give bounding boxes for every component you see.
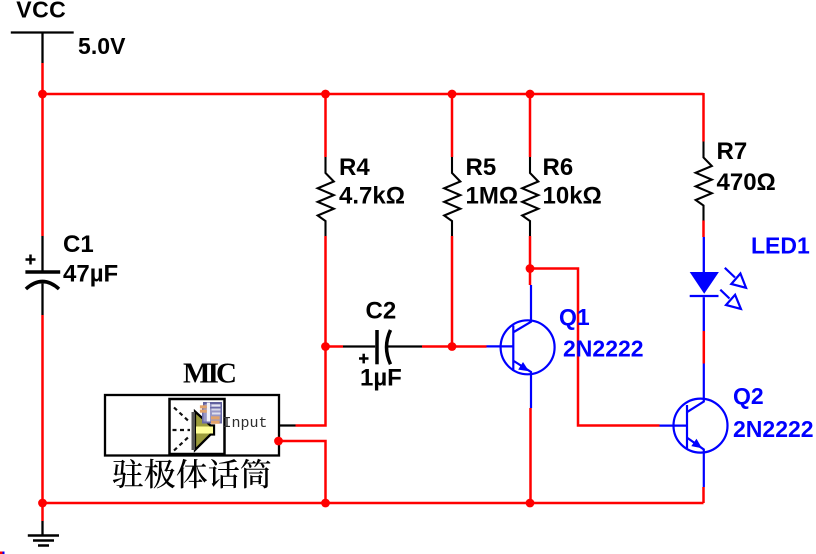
microphone MIC box xyxy=(105,358,279,456)
wire R6 bottom xyxy=(529,236,532,285)
svg-text:Input: Input xyxy=(223,415,268,432)
svg-text:2N2222: 2N2222 xyxy=(733,416,814,442)
resistor R4 xyxy=(318,154,405,236)
resistor R6 xyxy=(522,154,602,236)
wire C2 right stub xyxy=(422,345,452,348)
svg-text:470Ω: 470Ω xyxy=(717,169,776,196)
wire R5 bottom xyxy=(451,236,454,347)
svg-text:2N2222: 2N2222 xyxy=(563,336,644,362)
node R4 top xyxy=(321,90,330,99)
wire R5 top xyxy=(451,94,454,157)
node R6 top xyxy=(526,90,535,99)
svg-text:Q1: Q1 xyxy=(559,304,590,330)
svg-text:R7: R7 xyxy=(717,138,748,165)
node C2 left xyxy=(321,342,330,351)
corner artifact xyxy=(0,552,5,554)
node ground rail Q1 xyxy=(526,499,535,508)
wire R6 top xyxy=(529,94,532,157)
node ground rail MIC xyxy=(321,499,330,508)
label Chinese caption xyxy=(113,459,271,489)
svg-text:MIC: MIC xyxy=(183,358,237,390)
resistor R5 xyxy=(444,154,518,236)
wire R7 to LED xyxy=(702,221,705,238)
resistor R7 xyxy=(696,138,776,221)
svg-text:LED1: LED1 xyxy=(751,233,810,259)
node VCC rail left xyxy=(38,90,47,99)
wire left column upper xyxy=(41,94,44,236)
svg-text:1µF: 1µF xyxy=(360,365,402,392)
capacitor C1 xyxy=(25,231,118,315)
svg-text:VCC: VCC xyxy=(16,0,66,23)
LED LED1 xyxy=(690,233,810,332)
node R5 top xyxy=(448,90,457,99)
transistor Q2 xyxy=(660,364,814,488)
wire bottom rail xyxy=(43,502,704,505)
wire R4 top xyxy=(324,94,327,157)
svg-text:Q2: Q2 xyxy=(733,383,764,409)
wire node collector Q1 to Q2 base xyxy=(530,269,660,426)
ground xyxy=(28,521,59,546)
wire C2 left stub xyxy=(326,345,344,348)
wire VCC stem xyxy=(41,63,44,94)
wire MIC pin1 lead xyxy=(279,424,296,426)
svg-text:47µF: 47µF xyxy=(63,261,118,288)
wire top rail xyxy=(43,93,704,96)
microphone icon xyxy=(170,399,225,454)
wire MIC pin1 to C2 xyxy=(296,347,326,426)
transistor Q1 xyxy=(487,285,644,408)
wire R7 drop xyxy=(702,93,705,142)
node MIC pin2 xyxy=(274,437,283,446)
wire ground stem xyxy=(41,503,44,521)
svg-text:1MΩ: 1MΩ xyxy=(466,183,519,210)
wire Q2 emitter to ground rail xyxy=(702,487,705,503)
capacitor C2 xyxy=(343,298,422,392)
power VCC symbol xyxy=(11,0,74,63)
wire MIC pin2 to ground rail xyxy=(279,441,326,503)
svg-text:R4: R4 xyxy=(339,154,370,181)
node Q1 collector xyxy=(526,264,535,273)
wire Q1 emitter to ground rail xyxy=(529,408,532,503)
svg-text:R6: R6 xyxy=(543,154,574,181)
svg-text:4.7kΩ: 4.7kΩ xyxy=(339,183,405,210)
svg-text:10kΩ: 10kΩ xyxy=(543,183,602,210)
wire R4 bottom xyxy=(324,236,327,347)
svg-text:C1: C1 xyxy=(63,231,94,258)
svg-text:5.0V: 5.0V xyxy=(78,33,126,59)
svg-text:C2: C2 xyxy=(366,298,397,325)
node ground rail left xyxy=(38,499,47,508)
wire LED to Q2 collector xyxy=(703,331,706,364)
node C2 right xyxy=(448,342,457,351)
svg-text:R5: R5 xyxy=(466,154,497,181)
wire Q1 base xyxy=(452,345,487,348)
wire left column lower xyxy=(41,315,44,503)
